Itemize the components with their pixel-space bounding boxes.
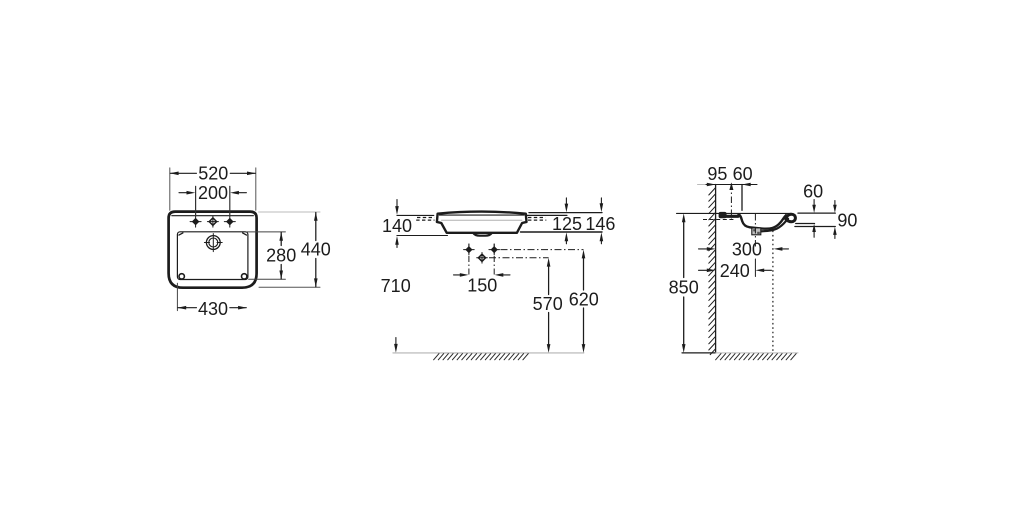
fixing bolt section: [719, 212, 727, 218]
dim 125 arrows: [565, 198, 567, 206]
bowl underside section: [756, 219, 789, 232]
inner bowl rim (plan): [177, 232, 248, 280]
front edge dotted line: [772, 231, 774, 353]
right ext line C (90): [795, 226, 835, 228]
ext line 125 top: [527, 214, 567, 216]
back ledge edge line: [172, 215, 254, 217]
wall hatching: [709, 188, 715, 355]
tap hole right: [224, 216, 235, 227]
drain section (hatched): [752, 228, 761, 235]
extension line 280 top: [247, 231, 286, 233]
svg-text:60: 60: [733, 164, 753, 184]
svg-text:850: 850: [669, 278, 699, 298]
tap hole centre (open): [207, 216, 218, 227]
bowl corner relief bottom-right: [242, 274, 247, 279]
fixing hole right: [489, 244, 500, 255]
ext line 146 top: [529, 212, 602, 214]
dimension 150: [454, 274, 462, 276]
fixing hole centre (open): [477, 253, 488, 264]
drain outer circle: [206, 236, 220, 250]
floor line: [393, 352, 584, 354]
dimension 200: [179, 192, 187, 194]
svg-text:520: 520: [198, 164, 228, 184]
trap cover bump: [473, 233, 491, 236]
dim 140 arrows: [396, 200, 398, 208]
right ext line B (60): [796, 223, 815, 225]
tap axis centreline: [730, 184, 732, 223]
rim top line / 850 extension: [677, 212, 792, 214]
svg-text:90: 90: [837, 211, 857, 231]
basin outer body (plan): [169, 212, 257, 288]
dim 90 arrows: [834, 201, 836, 207]
bowl back edge line: [741, 185, 743, 211]
svg-text:710: 710: [381, 276, 411, 296]
dim 710 bottom arrow: [395, 338, 397, 346]
dim 240: [699, 269, 708, 271]
dim 140 top line: [397, 214, 434, 216]
bowl corner tick top-left: [179, 233, 183, 235]
svg-text:200: 200: [198, 183, 228, 203]
bowl corner tick top-right: [243, 233, 247, 235]
extension line 520 left: [169, 168, 171, 210]
drain inner circle: [209, 238, 218, 247]
back ledge section: [726, 215, 739, 218]
floor hatching: [434, 354, 529, 360]
svg-text:150: 150: [467, 275, 497, 295]
dim 95/60 line: [698, 184, 707, 186]
dimension 430: [178, 307, 197, 309]
dim 146 arrows: [600, 198, 602, 206]
floor line right: [716, 352, 798, 354]
svg-text:570: 570: [533, 294, 563, 314]
centreline lower fixing row: [489, 257, 549, 259]
extension line 440 top: [259, 211, 320, 213]
dimension 570: [547, 258, 551, 267]
svg-text:95: 95: [707, 164, 727, 184]
dim 300: [699, 248, 708, 250]
dimension 620: [582, 250, 586, 259]
drain axis ext tick: [754, 259, 756, 277]
centreline fixing right vertical: [493, 244, 495, 277]
floor hatching: [716, 354, 797, 360]
right ext line A (rim level): [798, 212, 835, 214]
front rim edge line: [439, 214, 524, 216]
basin body (front elevation): [437, 212, 527, 233]
svg-text:430: 430: [198, 299, 228, 319]
ext line 125/146 bottom: [521, 231, 603, 233]
tap hole left: [190, 216, 201, 227]
extension line 440 bottom: [259, 286, 320, 288]
extension line 430 left: [176, 283, 178, 310]
svg-text:300: 300: [732, 240, 762, 260]
svg-text:140: 140: [382, 216, 412, 236]
extension line 200 right (hole axis): [229, 186, 231, 216]
dimension 850: [682, 213, 686, 222]
bowl corner relief bottom-left: [179, 274, 184, 279]
fixing hole left: [464, 244, 475, 255]
front rim hook: [786, 214, 796, 222]
centreline upper fixing row: [501, 249, 584, 251]
dimension 520: [170, 172, 255, 174]
extension line 280 bottom: [249, 278, 286, 280]
svg-text:240: 240: [720, 261, 750, 281]
drain centre mark: [204, 234, 222, 252]
dim 60 right arrows: [813, 200, 815, 207]
drain axis centreline: [754, 214, 756, 247]
svg-text:440: 440: [301, 240, 331, 260]
svg-text:125: 125: [552, 214, 582, 234]
ledge hidden dashed line: [703, 219, 735, 221]
svg-text:60: 60: [803, 182, 823, 202]
floor line: [682, 352, 716, 354]
dimension 280: [280, 232, 282, 245]
svg-text:146: 146: [585, 214, 615, 234]
bowl inner section: [739, 214, 787, 228]
dim 140 bottom line: [397, 235, 448, 237]
svg-text:280: 280: [266, 245, 296, 265]
centreline fixing left vertical: [468, 244, 470, 277]
inner shadow line: [442, 219, 522, 221]
svg-text:620: 620: [569, 289, 599, 309]
wall face: [715, 185, 717, 353]
extension line 520 right: [255, 168, 257, 210]
dimension 440: [315, 213, 317, 241]
hidden edge dashes left: [416, 218, 546, 221]
extension line 200 left (hole axis): [195, 186, 197, 216]
